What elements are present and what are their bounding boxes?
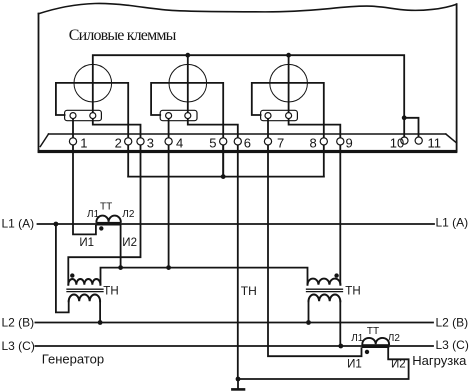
node: VT1 primary on L2 xyxy=(98,320,103,325)
VT1 polarity dot xyxy=(70,273,74,277)
CT2 И2 lead to ground bus xyxy=(238,348,409,379)
VT1 primary winding xyxy=(69,294,100,301)
element 3 wire loop (box) xyxy=(252,83,324,177)
VT2 core xyxy=(307,288,343,290)
terminal 5 xyxy=(220,138,227,145)
element 2 current coil box xyxy=(160,110,197,120)
node: terminal 10 jumper junction xyxy=(402,115,407,120)
element 3 wire: coil right terminal to terminal 9 down to VT2 secondary right xyxy=(289,116,341,285)
element 2 current coil right terminal xyxy=(185,113,191,119)
svg-text:L2 (B): L2 (B) xyxy=(436,316,469,330)
svg-text:И1: И1 xyxy=(79,237,94,249)
L2 phase line xyxy=(35,322,433,324)
svg-text:10: 10 xyxy=(390,136,404,151)
VT1 secondary winding xyxy=(68,279,100,285)
svg-text:И2: И2 xyxy=(391,359,406,371)
svg-text:Силовые клеммы: Силовые клеммы xyxy=(69,27,177,44)
svg-text:Л1: Л1 xyxy=(87,209,100,220)
svg-text:Л2: Л2 xyxy=(122,209,135,220)
node: VT2 primary on L3 xyxy=(338,344,343,349)
svg-text:L3 (C): L3 (C) xyxy=(2,339,35,353)
svg-text:7: 7 xyxy=(277,136,284,151)
svg-text:5: 5 xyxy=(209,136,216,151)
terminal 8 xyxy=(320,138,327,145)
node: ground junction xyxy=(236,377,241,382)
node: CT1 И2 junction on secondary bus xyxy=(118,265,123,270)
element 1 current coil left terminal xyxy=(70,113,76,119)
meter enclosure torn top edge xyxy=(39,3,457,13)
element 2 wire: coil left terminal to terminal 4 down to secondary bus xyxy=(168,116,170,268)
node: junction t5 on t2-t8 link xyxy=(221,174,226,179)
CT2 polarity dot xyxy=(365,350,369,354)
terminal strip left chamfer xyxy=(40,134,48,147)
svg-text:8: 8 xyxy=(310,136,317,151)
CT2 secondary humps xyxy=(362,338,389,344)
terminal 10 xyxy=(401,137,408,144)
element 1 wire: terminal 1 via coil left terminal down to CT1 И1 xyxy=(73,116,96,235)
element 1 voltage coil circle xyxy=(74,64,112,102)
terminal strip top edge xyxy=(49,133,446,135)
element 1 wire: coil right terminal to terminal 3, down to VT1 secondary left xyxy=(68,116,140,285)
svg-text:Генератор: Генератор xyxy=(42,352,104,367)
terminal 1 xyxy=(69,138,76,145)
CT1 И2 lead down to secondary bus xyxy=(120,226,122,268)
VT2 primary left lead to L2 xyxy=(308,301,310,322)
svg-text:Л2: Л2 xyxy=(388,333,401,344)
CT1 primary bar xyxy=(96,222,120,226)
ground symbol bar xyxy=(232,388,244,391)
wire: jumper terminal 10 to terminal 11 xyxy=(404,118,418,138)
svg-text:1: 1 xyxy=(80,136,87,151)
terminal strip right chamfer xyxy=(446,134,457,143)
svg-text:2: 2 xyxy=(115,136,122,151)
voltage bus inside meter xyxy=(93,55,404,138)
element 3 voltage coil circle xyxy=(270,64,308,102)
element 2 vertical wire through coil xyxy=(187,55,189,115)
meter enclosure right edge xyxy=(456,4,458,151)
node: junction t4 on secondary bus xyxy=(166,265,171,270)
terminal 4 xyxy=(165,138,172,145)
svg-text:И1: И1 xyxy=(347,359,362,371)
VT1 primary right lead to L2 xyxy=(99,301,101,322)
terminal 2 xyxy=(125,138,132,145)
svg-text:L2 (B): L2 (B) xyxy=(2,316,35,330)
svg-text:4: 4 xyxy=(176,136,183,151)
node: VT2 primary on L2 xyxy=(306,320,311,325)
CT2 primary bar xyxy=(362,344,389,348)
element 3 vertical wire through coil xyxy=(288,55,290,115)
VT2 secondary winding xyxy=(308,279,341,285)
svg-text:Л1: Л1 xyxy=(351,333,364,344)
svg-text:ТН: ТН xyxy=(103,285,118,297)
VT2 primary right lead to L3 xyxy=(339,301,341,346)
element 2 wire loop (box) xyxy=(151,83,223,177)
terminal 7 xyxy=(264,138,271,145)
VT2 primary winding xyxy=(309,294,341,301)
svg-text:L3 (C): L3 (C) xyxy=(436,338,469,352)
element 2 voltage coil circle xyxy=(169,64,207,102)
svg-text:ТН: ТН xyxy=(345,285,360,297)
element 2 current coil left terminal xyxy=(166,113,172,119)
wire: t2 to t8 link xyxy=(128,176,324,178)
element 3 current coil left terminal xyxy=(265,113,271,119)
CT1 polarity dot xyxy=(99,226,103,230)
terminal 11 xyxy=(415,137,422,144)
ground symbol stem xyxy=(237,379,239,388)
element 1 current coil right terminal xyxy=(90,113,96,119)
L3 phase line xyxy=(35,345,433,347)
svg-text:L1 (A): L1 (A) xyxy=(436,215,469,229)
node: L1 tap to VT1 primary xyxy=(54,222,59,227)
svg-text:ТН: ТН xyxy=(241,284,257,298)
CT1 secondary humps xyxy=(96,216,120,222)
meter enclosure bottom edge xyxy=(38,150,458,153)
svg-text:ТТ: ТТ xyxy=(100,202,112,213)
svg-text:И2: И2 xyxy=(122,237,137,249)
VT2 polarity dot xyxy=(334,273,338,277)
element 3 wire: coil left terminal to terminal 7 down to CT2 И1 xyxy=(268,116,362,357)
svg-text:3: 3 xyxy=(147,136,154,151)
element 1 wire loop (box) xyxy=(56,83,128,177)
secondary bus: VT1 right lead to VT2 left lead xyxy=(101,268,308,285)
element 3 current coil right terminal xyxy=(286,113,292,119)
terminal 3 xyxy=(137,138,144,145)
node: bus tap element 2 xyxy=(185,53,190,58)
svg-text:L1 (A): L1 (A) xyxy=(2,217,35,231)
meter enclosure left edge xyxy=(38,14,40,153)
svg-text:9: 9 xyxy=(346,136,353,151)
L1 phase line xyxy=(38,223,435,225)
element 3 current coil box xyxy=(261,110,298,120)
terminal 6 xyxy=(234,138,241,145)
VT1 core xyxy=(67,288,103,290)
svg-text:ТТ: ТТ xyxy=(367,326,379,337)
svg-text:6: 6 xyxy=(244,136,251,151)
node: bus tap element 3 xyxy=(286,53,291,58)
svg-text:Нагрузка: Нагрузка xyxy=(412,353,467,368)
element 1 current coil box xyxy=(65,110,102,120)
element 2 wire: coil right terminal to terminal 6 down to ground node xyxy=(188,116,238,379)
wire: terminal 5 down to t2-t8 link xyxy=(222,141,224,176)
svg-text:11: 11 xyxy=(428,136,442,151)
terminal 9 xyxy=(337,138,344,145)
VT1 primary left lead to L1 tap xyxy=(56,224,69,312)
